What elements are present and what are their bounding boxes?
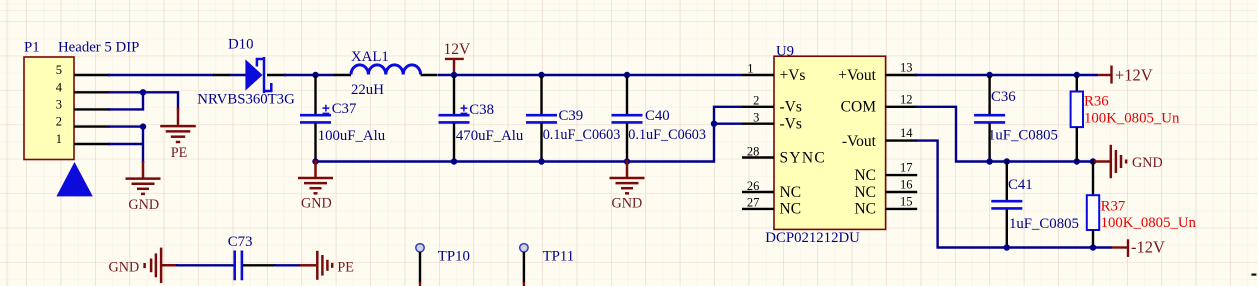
- wire P1 pin5 to D10: [108, 74, 214, 76]
- junction C36 bottom: [986, 158, 992, 164]
- junction pin2/pin1: [140, 123, 146, 129]
- svg-text:-12V: -12V: [1131, 238, 1165, 257]
- node: junction 12V / C38: [451, 72, 457, 78]
- capacitor C36: [974, 75, 1058, 162]
- svg-text:GND: GND: [612, 196, 643, 212]
- junction R36 top: [1074, 72, 1080, 78]
- svg-text:27: 27: [747, 196, 760, 210]
- svg-text:3: 3: [753, 111, 759, 125]
- svg-text:NC: NC: [854, 167, 876, 184]
- power port +12V: [1098, 65, 1153, 84]
- connector P1: [24, 40, 139, 160]
- svg-text:470uF_Alu: 470uF_Alu: [456, 128, 524, 144]
- diode D10: [197, 36, 295, 107]
- junction C38 bottom: [451, 158, 457, 164]
- node: junction C39 top: [538, 72, 544, 78]
- power port 12V: [444, 41, 472, 75]
- wire XAL1 to U9 pin1: [438, 74, 742, 76]
- node: junction at C37 tap: [312, 72, 318, 78]
- svg-text:100uF_Alu: 100uF_Alu: [318, 128, 386, 144]
- svg-text:28: 28: [747, 144, 760, 158]
- test point TP11: [520, 244, 574, 286]
- capacitor C39: [526, 75, 620, 162]
- U9 pin 2: [742, 106, 774, 108]
- junction R36 bottom: [1074, 158, 1080, 164]
- power port GND (header): [126, 161, 161, 194]
- svg-text:C39: C39: [559, 108, 584, 124]
- wire pin1 down to GND: [108, 127, 143, 163]
- svg-text:NRVBS360T3G: NRVBS360T3G: [197, 91, 295, 107]
- svg-text:+12V: +12V: [1115, 65, 1153, 84]
- blue sheet-entry triangle: [56, 162, 92, 196]
- svg-text:14: 14: [900, 126, 913, 140]
- wire pin3 to junction: [108, 92, 143, 109]
- pin 2 of P1: [74, 125, 110, 127]
- svg-text:2: 2: [753, 94, 759, 108]
- junction pin3 tap: [711, 121, 717, 127]
- junction C37 bottom: [312, 158, 318, 164]
- node: junction C40 top: [624, 72, 630, 78]
- svg-text:C73: C73: [228, 234, 253, 250]
- power port -12V: [1112, 238, 1165, 257]
- pin 4 of P1: [74, 91, 110, 93]
- U9 pin 15 NC: [886, 208, 918, 210]
- capacitor C37: [300, 75, 386, 162]
- svg-text:PE: PE: [337, 260, 354, 276]
- U9 pin 1: [742, 74, 774, 76]
- capacitor C40: [612, 75, 706, 162]
- svg-text:-Vs: -Vs: [780, 116, 802, 133]
- svg-text:GND: GND: [1132, 155, 1163, 171]
- svg-text:NC: NC: [780, 184, 802, 201]
- svg-text:GND: GND: [301, 196, 332, 212]
- power port GND (C37): [298, 160, 333, 193]
- svg-text:R37: R37: [1101, 198, 1126, 214]
- U9 pin 13 +Vout: [886, 74, 918, 76]
- svg-text:+Vs: +Vs: [780, 67, 806, 84]
- inductor XAL1: [351, 49, 438, 98]
- svg-text:3: 3: [56, 97, 62, 111]
- svg-text:GND: GND: [128, 197, 159, 213]
- GND bus wire: [316, 107, 743, 162]
- power port PE (bottom, sideways): [300, 251, 332, 280]
- junction C41 bottom: [1004, 244, 1010, 250]
- svg-text:R36: R36: [1084, 94, 1109, 110]
- U9 pin 28 SYNC: [742, 156, 774, 158]
- pin 1 of P1: [74, 143, 110, 145]
- power port PE: [160, 108, 196, 142]
- wire pin2 to junction: [108, 125, 143, 127]
- U9 pin 16 NC: [886, 191, 918, 193]
- wire -Vout to bottom rail: [915, 141, 1112, 248]
- svg-text:16: 16: [900, 178, 913, 192]
- svg-text:C38: C38: [469, 102, 494, 118]
- svg-text:Header 5 DIP: Header 5 DIP: [58, 40, 139, 56]
- power port GND (right, sideways): [1094, 145, 1126, 178]
- svg-text:C36: C36: [991, 89, 1016, 105]
- wire COM to mid rail: [915, 107, 1094, 162]
- svg-text:NC: NC: [854, 201, 876, 218]
- U9 pin 17 NC: [886, 174, 918, 176]
- svg-text:-Vout: -Vout: [842, 133, 877, 150]
- svg-text:C40: C40: [645, 108, 670, 124]
- svg-text:C41: C41: [1008, 177, 1033, 193]
- svg-text:U9: U9: [776, 43, 794, 59]
- svg-text:0.1uF_C0603: 0.1uF_C0603: [628, 127, 706, 143]
- svg-text:1: 1: [747, 62, 753, 76]
- capacitor C73: [228, 234, 276, 280]
- U9 pin 14 -Vout: [886, 139, 918, 141]
- svg-text:DCP021212DU: DCP021212DU: [765, 230, 860, 246]
- wire GND to C73: [176, 264, 234, 266]
- svg-text:26: 26: [747, 179, 760, 193]
- svg-text:12V: 12V: [444, 41, 472, 58]
- svg-text:13: 13: [900, 60, 913, 74]
- svg-text:TP10: TP10: [438, 248, 470, 264]
- svg-text:SYNC: SYNC: [780, 149, 827, 166]
- svg-text:NC: NC: [854, 184, 876, 201]
- wire to U9 pin3: [714, 122, 742, 124]
- svg-text:2: 2: [56, 115, 62, 129]
- test point TP10: [416, 244, 470, 286]
- svg-text:100K_0805_Un: 100K_0805_Un: [1084, 110, 1180, 126]
- resistor R37: [1087, 162, 1197, 248]
- wire +Vout rail: [915, 74, 1098, 76]
- svg-text:0.1uF_C0603: 0.1uF_C0603: [543, 127, 621, 143]
- svg-text:100K_0805_Un: 100K_0805_Un: [1101, 215, 1197, 231]
- U9 pin 12 COM: [886, 106, 918, 108]
- svg-text:D10: D10: [228, 36, 253, 52]
- svg-text:5: 5: [56, 63, 62, 77]
- junction R37 bottom: [1090, 244, 1096, 250]
- IC U9: [765, 43, 885, 246]
- svg-text:17: 17: [900, 161, 913, 175]
- junction pin4/pin3: [140, 89, 146, 95]
- svg-text:NC: NC: [780, 201, 802, 218]
- svg-text:1: 1: [56, 132, 62, 146]
- U9 pin 3: [742, 122, 774, 124]
- junction C36 top: [986, 72, 992, 78]
- junction C40 bottom: [624, 158, 630, 164]
- svg-text:15: 15: [900, 195, 913, 209]
- pin 3 of P1: [74, 108, 110, 110]
- svg-text:-Vs: -Vs: [780, 99, 802, 116]
- svg-text:+Vout: +Vout: [838, 67, 876, 84]
- U9 pin 27 NC: [742, 208, 774, 210]
- svg-text:22uH: 22uH: [351, 82, 384, 98]
- svg-text:1uF_C0805: 1uF_C0805: [1009, 216, 1079, 232]
- capacitor C38: [439, 75, 524, 162]
- resistor R36: [1071, 75, 1180, 162]
- wire pin4 to PE: [108, 92, 178, 110]
- svg-text:P1: P1: [24, 40, 40, 56]
- U9 pin 26 NC: [742, 191, 774, 193]
- wire C73 to PE: [274, 264, 301, 266]
- svg-text:1uF_C0805: 1uF_C0805: [988, 127, 1058, 143]
- wire D10 to C37 node: [284, 74, 335, 76]
- svg-text:TP11: TP11: [543, 248, 575, 264]
- junction C39 bottom: [538, 158, 544, 164]
- pin 5 of P1: [74, 74, 110, 76]
- svg-text:C37: C37: [332, 101, 357, 117]
- capacitor C41: [991, 162, 1079, 248]
- stray mark bottom right: [1251, 274, 1256, 276]
- svg-text:PE: PE: [171, 145, 188, 161]
- junction R37 top: [1090, 158, 1096, 164]
- svg-text:XAL1: XAL1: [351, 49, 389, 65]
- svg-text:COM: COM: [841, 99, 877, 116]
- power port GND (C40): [610, 160, 645, 193]
- svg-text:GND: GND: [109, 260, 140, 276]
- svg-text:4: 4: [56, 80, 63, 94]
- svg-text:12: 12: [900, 92, 913, 106]
- junction C41 top: [1004, 158, 1010, 164]
